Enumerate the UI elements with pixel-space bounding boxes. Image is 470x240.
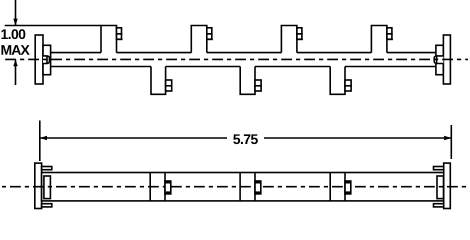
left pin <box>43 56 49 64</box>
right pin <box>434 56 443 64</box>
up tab 2 <box>191 26 207 53</box>
up tab 3 nub <box>297 28 302 34</box>
down tab 3 <box>330 67 345 95</box>
up tab 2 nub <box>207 28 212 34</box>
bottom view nub 3 <box>345 181 351 194</box>
text MAX <box>1 45 29 55</box>
bottom view left flange <box>35 163 42 208</box>
extension line left (5.75) <box>39 121 41 162</box>
down tab 2 nub <box>255 80 261 86</box>
bottom view left bottom ear <box>42 204 52 207</box>
arrowhead up <box>13 59 17 66</box>
bottom view bar <box>42 173 444 201</box>
text 5.75 <box>233 134 258 144</box>
dimension line 1.00 MAX lower segment <box>15 59 17 85</box>
extension line right (5.75) <box>450 125 452 159</box>
dimension line 5.75 left segment <box>40 137 227 139</box>
down tab 1 nub <box>166 80 172 86</box>
up tab 4 nub <box>387 28 392 34</box>
bar bottom edge segments <box>51 66 436 68</box>
arrowhead down <box>13 19 17 26</box>
right socket <box>437 176 444 199</box>
right step block (top view) <box>436 45 444 74</box>
bottom view nub 2 <box>255 181 261 194</box>
up tab 1 <box>101 26 117 53</box>
bar top edge segments <box>51 52 436 54</box>
text 1.00 <box>1 29 25 39</box>
arrowhead right <box>444 136 451 140</box>
down tab 2 <box>240 67 255 95</box>
dimension line 5.75 right segment <box>264 137 451 139</box>
centerline top view <box>2 58 468 60</box>
bottom view right flange <box>444 163 451 208</box>
left step block (top view) <box>43 45 51 74</box>
up tab 3 <box>281 26 297 53</box>
left socket <box>44 176 51 199</box>
division lines <box>149 173 151 201</box>
dimension line 1.00 MAX upper segment <box>15 0 17 26</box>
right flange (top view) <box>443 35 450 84</box>
arrowhead left <box>40 136 47 140</box>
bottom view right top ear <box>434 167 444 170</box>
down tab 1 <box>151 67 166 95</box>
down tab 3 nub <box>345 80 351 86</box>
bottom view nub 1 <box>165 181 171 194</box>
centerline bottom view <box>2 186 468 188</box>
left flange (top view) <box>35 35 43 84</box>
up tab 1 nub <box>117 28 122 34</box>
dimension extension line (top of tabs) <box>5 25 101 27</box>
bottom view left top ear <box>42 167 52 170</box>
up tab 4 <box>371 26 387 53</box>
bottom view right bottom ear <box>434 204 444 207</box>
